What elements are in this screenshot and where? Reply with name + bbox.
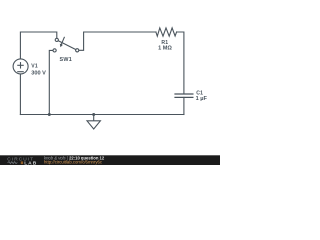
svg-text:1 µF: 1 µF: [196, 96, 208, 102]
svg-text:http://circuitlab.com/c/6mnry6: http://circuitlab.com/c/6mnry6c: [44, 159, 103, 164]
svg-text:LAB: LAB: [24, 160, 37, 165]
svg-text:300 V: 300 V: [31, 70, 46, 76]
svg-text:SW1: SW1: [60, 57, 73, 63]
svg-text:1 MΩ: 1 MΩ: [158, 46, 172, 52]
svg-text:V1: V1: [31, 63, 38, 69]
